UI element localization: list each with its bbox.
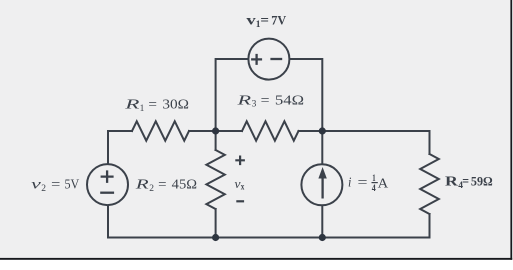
current source I1 (circle) <box>301 164 342 205</box>
wire: R1 to node A <box>189 130 216 132</box>
svg-text:45Ω: 45Ω <box>172 178 197 193</box>
wire: current source bottom to bottom node D <box>321 205 323 237</box>
resistor R3 <box>242 121 299 140</box>
arrow head of current source I1 <box>319 169 326 179</box>
label v1 = 7V <box>246 14 286 30</box>
svg-text:=: = <box>462 174 469 189</box>
svg-text:=: = <box>358 176 368 191</box>
resistor R1 <box>132 121 189 140</box>
plus sign of V1 <box>251 54 262 65</box>
voltage source V1 (circle) <box>248 39 289 80</box>
svg-text:2: 2 <box>149 184 154 194</box>
arrow shaft of current source I1 <box>321 177 323 199</box>
svg-text:x: x <box>241 182 245 192</box>
junction dot node D <box>319 234 326 241</box>
svg-text:3: 3 <box>252 100 257 110</box>
junction dot node C <box>212 234 219 241</box>
svg-text:=: = <box>261 93 270 108</box>
wire: node B to top-right corner <box>322 130 429 132</box>
label R4 = 59 ohm <box>445 174 493 191</box>
label v2 = 5V <box>31 178 79 194</box>
wire: R4 to bottom-right corner <box>429 214 431 238</box>
minus sign of V1 <box>270 58 282 60</box>
junction dot node A <box>212 127 219 134</box>
wire: top-left corner to R1 <box>108 130 132 132</box>
wire: node A up to v1 left terminal <box>216 59 249 131</box>
svg-text:1: 1 <box>140 104 145 114</box>
svg-text:59Ω: 59Ω <box>471 175 493 189</box>
svg-text:R: R <box>445 174 458 189</box>
junction dot node B <box>319 127 326 134</box>
minus sign of V2 <box>100 192 114 194</box>
plus sign of vx polarity <box>235 156 245 166</box>
plus sign of V2 <box>101 170 114 183</box>
svg-text:2: 2 <box>41 184 46 194</box>
label R1 = 30 ohm <box>124 98 189 114</box>
label R2 = 45 ohm <box>134 178 197 194</box>
wire: node A to R3 <box>216 130 242 132</box>
resistor R4 <box>420 154 439 214</box>
wire: R3 to node B <box>299 130 323 132</box>
svg-text:i: i <box>348 176 351 191</box>
wire: node B down to current source top <box>321 131 323 164</box>
wire: bottom rail <box>108 237 430 239</box>
svg-text:=: = <box>158 178 166 193</box>
wire: node A down to R2 <box>215 131 217 150</box>
wire: v1 right terminal down to node B <box>289 59 322 131</box>
voltage source V2 (circle) <box>87 164 128 205</box>
svg-text:54Ω: 54Ω <box>275 93 304 108</box>
svg-text:R: R <box>124 98 141 113</box>
resistor R2 <box>206 150 224 209</box>
wire: left branch upper (corner to v2 top) <box>107 131 109 164</box>
svg-text:R: R <box>134 178 149 193</box>
wire: R2 to bottom node C <box>215 209 217 238</box>
wire: top-right corner down to R4 <box>429 131 431 154</box>
svg-text:4: 4 <box>372 183 376 193</box>
svg-text:=: = <box>148 98 157 113</box>
svg-text:30Ω: 30Ω <box>162 98 189 113</box>
fraction bar <box>372 182 378 183</box>
svg-text:R: R <box>236 93 252 108</box>
svg-text:7V: 7V <box>271 14 286 28</box>
svg-text:=: = <box>260 14 269 29</box>
svg-text:5V: 5V <box>65 178 80 193</box>
wire: left branch lower (v2 bottom to bottom-left corner) <box>107 205 109 238</box>
svg-text:1: 1 <box>372 173 376 183</box>
svg-text:A: A <box>378 177 390 192</box>
svg-text:=: = <box>51 178 60 193</box>
minus sign of vx polarity <box>236 200 244 202</box>
svg-text:v: v <box>246 14 255 29</box>
label R3 = 54 ohm <box>236 93 304 109</box>
